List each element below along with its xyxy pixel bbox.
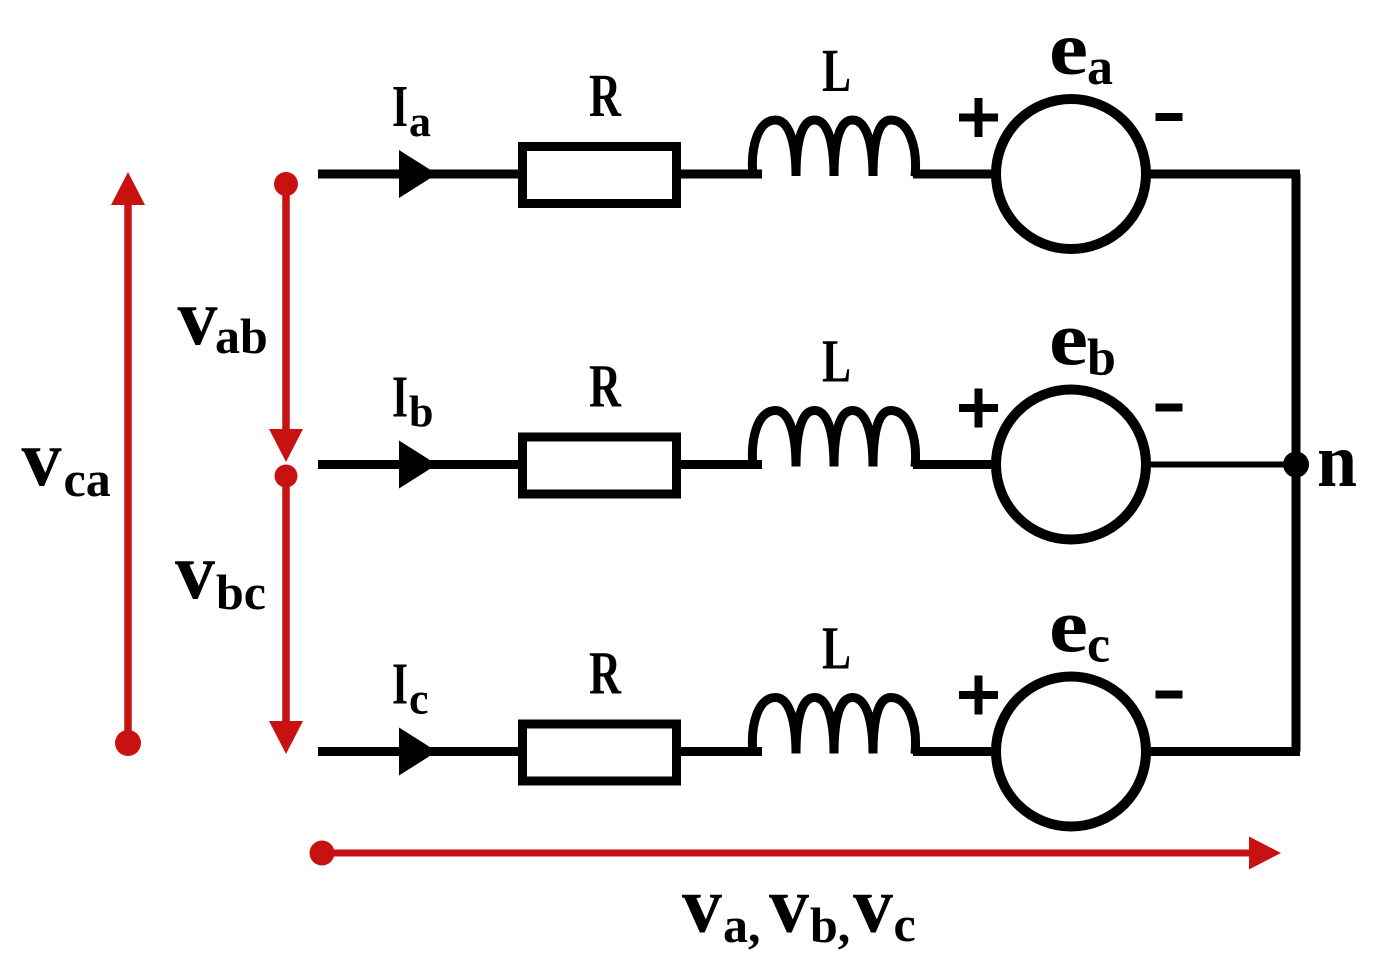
minus sign (phase b source)	[1156, 404, 1183, 412]
red arrow v_ab tail dot	[274, 172, 298, 196]
voltage source ea (phase a)	[996, 99, 1146, 249]
inductor L (phase a)	[752, 120, 915, 177]
svg-text:L: L	[822, 616, 851, 683]
resistor R (phase b)	[523, 437, 677, 494]
svg-text:e: e	[1049, 7, 1088, 91]
voltage source eb (phase b)	[996, 390, 1146, 540]
svg-text:v: v	[22, 415, 62, 503]
inductor L (phase c)	[752, 698, 915, 755]
plus sign (phase a source)	[959, 114, 998, 122]
red arrow v_ab head	[269, 429, 303, 462]
voltage source ec (phase c)	[996, 677, 1146, 827]
wire: phase c between L and source	[913, 747, 1000, 756]
svg-text:b: b	[1087, 330, 1116, 387]
svg-text:I: I	[392, 651, 408, 717]
current arrow Ib	[399, 441, 437, 489]
svg-text:R: R	[589, 354, 622, 421]
svg-text:v: v	[853, 862, 893, 950]
svg-text:L: L	[822, 329, 851, 396]
svg-text:v: v	[682, 862, 722, 950]
svg-text:v: v	[175, 528, 215, 616]
red arrow v_ab line	[282, 184, 290, 432]
svg-text:e: e	[1049, 298, 1088, 382]
wire: right vertical bus	[1292, 174, 1301, 752]
svg-text:R: R	[589, 63, 622, 130]
svg-text:c: c	[1087, 617, 1110, 674]
resistor R (phase c)	[523, 724, 677, 781]
red bottom arrow tail dot	[310, 841, 335, 866]
red bottom arrow line	[322, 850, 1252, 857]
red arrow v_bc line	[282, 476, 290, 724]
svg-text:a,: a,	[723, 897, 761, 953]
svg-text:v: v	[769, 862, 809, 950]
node n junction dot	[1283, 452, 1309, 478]
svg-text:c: c	[894, 896, 916, 952]
wire: phase b left segment	[318, 460, 524, 469]
red arrow v_bc head	[269, 721, 303, 754]
red arrow v_ca head	[111, 172, 145, 205]
wire: phase b between R and L	[677, 460, 762, 469]
svg-text:v: v	[178, 274, 218, 362]
svg-text:c: c	[409, 675, 429, 724]
svg-text:I: I	[392, 364, 408, 430]
svg-text:ab: ab	[215, 308, 268, 364]
svg-text:I: I	[392, 73, 408, 139]
red bottom arrow head	[1249, 837, 1281, 870]
svg-text:b,: b,	[810, 897, 850, 953]
svg-text:a: a	[1087, 39, 1113, 96]
svg-text:R: R	[589, 641, 622, 708]
wire: phase b from source to right bus	[1146, 462, 1300, 468]
svg-text:n: n	[1317, 419, 1357, 503]
red arrow v_bc tail dot	[275, 465, 298, 488]
wire: phase c between R and L	[677, 747, 762, 756]
wire: phase b between L and source	[913, 460, 1000, 469]
wire: phase a from source to right bus	[1146, 170, 1300, 179]
current arrow Ic	[399, 728, 437, 776]
svg-text:a: a	[409, 97, 431, 146]
red arrow v_ca tail dot	[115, 730, 141, 756]
plus sign (phase c source)	[959, 691, 998, 699]
svg-text:bc: bc	[216, 564, 266, 620]
svg-text:b: b	[409, 388, 433, 437]
red arrow v_ca line	[124, 200, 132, 743]
svg-text:e: e	[1049, 585, 1088, 669]
minus sign (phase c source)	[1156, 691, 1183, 699]
plus sign (phase b source)	[959, 404, 998, 412]
wire: phase c from source to right bus	[1146, 747, 1300, 756]
resistor R (phase a)	[523, 147, 677, 204]
wire: phase a between L and source	[913, 170, 1000, 179]
minus sign (phase a source)	[1156, 113, 1183, 121]
wire: phase c left segment	[318, 747, 524, 756]
current arrow Ia	[399, 150, 437, 198]
inductor L (phase b)	[752, 411, 915, 468]
svg-text:L: L	[822, 38, 851, 105]
wire: phase a between R and L	[677, 170, 762, 179]
svg-text:ca: ca	[64, 451, 111, 507]
wire: phase a left segment	[318, 170, 524, 179]
